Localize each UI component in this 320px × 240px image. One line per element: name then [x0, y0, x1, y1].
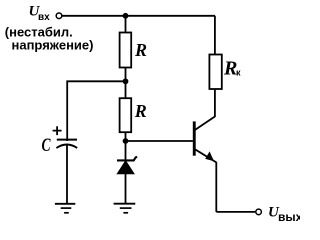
zener diode VD cathode bar [117, 157, 137, 160]
svg-text:R: R [134, 40, 147, 60]
wire: emitter down to output [215, 162, 217, 212]
capacitor C bottom curved plate [56, 145, 77, 149]
wire: R2 bottom to zener junction [125, 132, 127, 141]
svg-text:к: к [236, 68, 241, 78]
output terminal Uвых [256, 209, 262, 215]
transistor VT collector diagonal [195, 117, 215, 130]
wire: zener to ground [125, 174, 127, 204]
wire: capacitor to ground [66, 146, 68, 204]
wire: junction down to zener [125, 141, 127, 160]
ground (right, under zener) [114, 203, 136, 205]
capacitor C top plate [57, 139, 77, 141]
node: divider mid junction [123, 78, 129, 84]
node: zener / base junction [123, 138, 129, 144]
transistor VT base bar [193, 121, 196, 155]
wire: top rail from input terminal to right corner [62, 15, 215, 17]
wire: bottom output wire [216, 211, 255, 213]
transistor VT emitter diagonal with arrow [195, 149, 216, 162]
wire: base wire from junction to transistor [126, 140, 193, 142]
svg-text:вх: вх [38, 12, 50, 23]
node: junction top rail / R divider [123, 13, 129, 19]
ground (left, under C) [55, 203, 75, 205]
svg-text:C: C [42, 135, 51, 156]
svg-text:вых: вых [278, 210, 300, 224]
wire: right rail down to Rk [214, 16, 216, 55]
wire: R1 bottom to R2 top through node [125, 68, 127, 99]
svg-text:R: R [134, 101, 147, 121]
resistor Rk [209, 55, 221, 90]
svg-text:напряжение): напряжение) [12, 38, 94, 53]
input terminal Uвх [56, 13, 62, 19]
transistor VT emitter arrowhead [205, 151, 214, 161]
plus sign of C [53, 126, 62, 135]
wire: mid junction left and down to capacitor [67, 81, 125, 141]
resistor R (upper) [120, 33, 132, 68]
wire: Rk bottom to collector [214, 89, 216, 117]
zener diode VD anode triangle [117, 161, 134, 174]
resistor R (lower) [120, 98, 132, 132]
wire: junction down to R1 [125, 16, 127, 33]
